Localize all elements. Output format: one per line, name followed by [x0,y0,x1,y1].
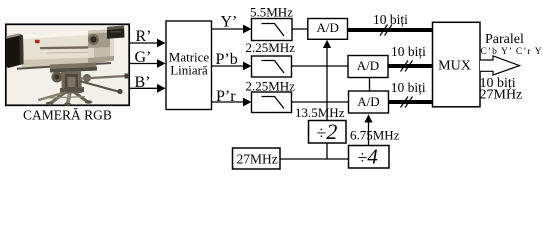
svg-text:CAMERĂ RGB: CAMERĂ RGB [23,108,112,123]
svg-text:Paralel: Paralel [485,32,524,47]
svg-text:A/D: A/D [357,94,379,109]
svg-text:P’b: P’b [216,51,238,68]
svg-text:13.5MHz: 13.5MHz [295,105,345,120]
svg-text:A/D: A/D [357,58,379,73]
svg-text:27MHz: 27MHz [480,88,523,103]
svg-text:G’: G’ [135,49,152,66]
svg-text:÷4: ÷4 [358,145,379,169]
svg-text:10 biți: 10 biți [373,12,408,27]
svg-text:C’b Y’ C’r Y’: C’b Y’ C’r Y’ [481,47,543,57]
svg-text:B’: B’ [135,74,151,91]
svg-text:÷2: ÷2 [317,119,338,144]
svg-text:10 biți: 10 biți [391,80,426,95]
svg-text:Liniară: Liniară [170,63,208,78]
svg-text:10 biți: 10 biți [391,44,426,59]
svg-text:Y’: Y’ [221,14,238,31]
svg-text:6.75MHz: 6.75MHz [350,128,400,143]
svg-text:R’: R’ [136,28,152,45]
svg-text:A/D: A/D [317,20,339,35]
svg-text:27MHz: 27MHz [237,152,278,167]
svg-text:2.25MHz: 2.25MHz [246,79,296,94]
svg-text:5.5MHz: 5.5MHz [250,4,293,19]
svg-text:MUX: MUX [438,59,471,74]
svg-text:P’r: P’r [216,88,236,105]
svg-text:2.25MHz: 2.25MHz [246,40,296,55]
